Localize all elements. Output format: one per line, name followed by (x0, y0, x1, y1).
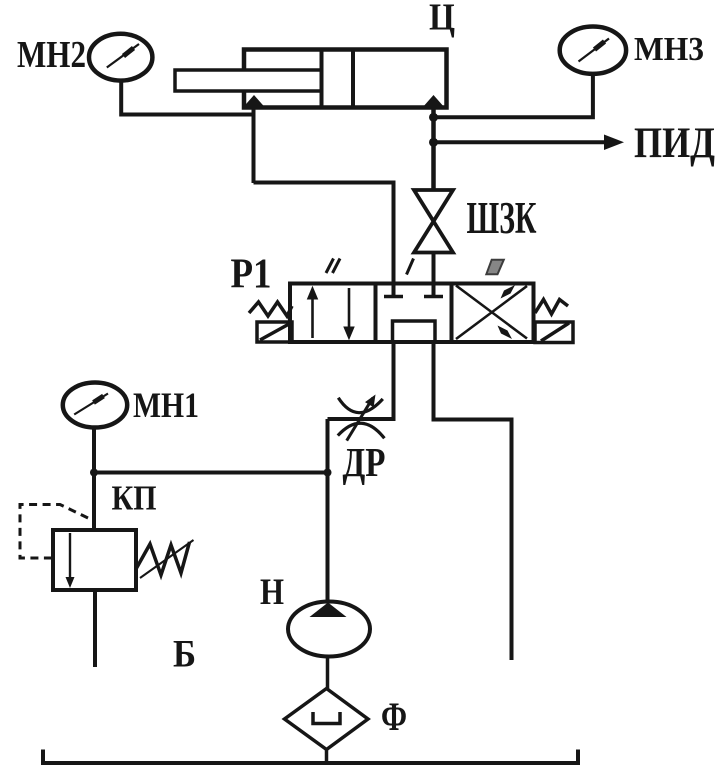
wire: P1 bottom left port to throttle (328, 342, 394, 419)
svg-text:Н: Н (260, 572, 284, 613)
valve P1 section divider left (374, 284, 378, 343)
wire: ShZK to valve P1 (432, 253, 436, 286)
pilot box right of P1 (535, 322, 573, 343)
spring right of P1 (535, 300, 568, 315)
arrow into cylinder right port (423, 95, 445, 108)
mark // above left section (326, 259, 340, 274)
grey mark above right section (486, 260, 504, 275)
wire: pump to filter (326, 656, 330, 689)
pilot box left of P1 (257, 322, 292, 342)
shut-off valve ShZK (414, 190, 453, 253)
valve P1 centre bottom connected ports (393, 321, 436, 342)
svg-text:Б: Б (173, 633, 196, 676)
wire: PID tap (434, 140, 607, 144)
relief valve KP body (53, 530, 136, 590)
relief valve KP pilot line (dashed) (20, 505, 88, 559)
svg-text:ПИД: ПИД (634, 120, 715, 167)
node: junction MH1 stem / relief line (90, 469, 98, 477)
svg-text:КП: КП (112, 479, 157, 518)
throttle DR (338, 398, 385, 441)
valve P1 left position arrows (308, 287, 355, 339)
gauge MH3 (560, 27, 626, 74)
svg-text:ДР: ДР (343, 439, 386, 485)
cylinder C body (244, 50, 447, 108)
wire: MH2 to left port line (121, 81, 253, 115)
svg-text:Ф: Ф (381, 694, 407, 739)
spring left of P1 (249, 302, 292, 316)
piston (322, 50, 354, 108)
svg-text:ШЗК: ШЗК (467, 193, 537, 243)
wire: pump riser (326, 419, 330, 602)
svg-text:МН3: МН3 (634, 31, 704, 68)
valve P1 body (290, 284, 534, 343)
valve P1 centre position blocked ports (384, 284, 443, 343)
node: junction right line / MH3 (429, 113, 438, 122)
wire: MH1 stem (92, 428, 96, 531)
piston rod (175, 70, 322, 91)
wire: left port line to valve P1 (254, 183, 394, 286)
wire: cylinder right port down (431, 106, 436, 192)
filter F (285, 689, 369, 750)
tank line (43, 750, 578, 764)
wire: filter to tank (325, 750, 329, 765)
wire: KP to tank (93, 590, 97, 667)
valve P1 right position crossed arrows (456, 285, 527, 339)
gauge MH2 (89, 34, 152, 81)
wire: relief line to pump riser (94, 471, 328, 475)
node: junction right line / PID (429, 138, 438, 147)
wire: cylinder left port down (252, 106, 256, 183)
arrow into cylinder left port (243, 95, 265, 108)
svg-text:МН2: МН2 (17, 34, 86, 76)
relief valve KP adjust arrow (140, 540, 194, 578)
valve P1 section divider right (450, 284, 454, 343)
gauge MH1 (63, 383, 127, 428)
wire: MH3 stem and horizontal to right port line (434, 74, 593, 117)
svg-text:Ц: Ц (429, 0, 455, 39)
wire: P1 bottom right port to tank return (434, 342, 512, 660)
arrow to PID (604, 135, 624, 151)
relief valve KP internal arrow (69, 533, 71, 580)
svg-text:МН1: МН1 (133, 385, 199, 425)
svg-text:Р1: Р1 (231, 252, 272, 298)
relief valve KP spring (136, 542, 190, 575)
node: junction riser / relief line (324, 469, 332, 477)
mark / above centre section (407, 259, 414, 275)
pump N (288, 602, 370, 657)
